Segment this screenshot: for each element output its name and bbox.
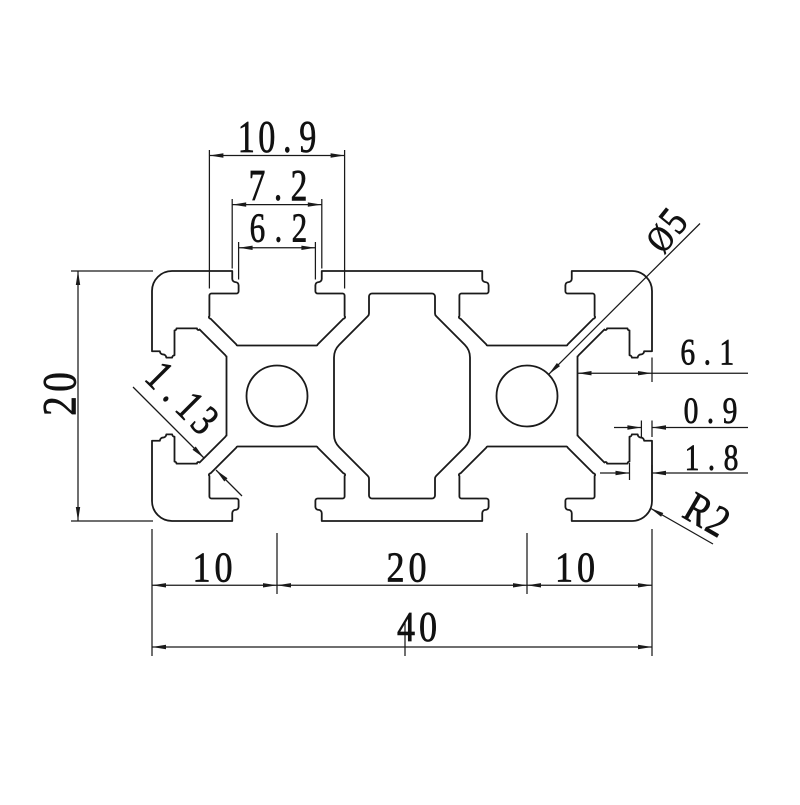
svg-text:7.2: 7.2 [249, 162, 308, 210]
svg-text:0.9: 0.9 [684, 391, 738, 432]
svg-text:6.2: 6.2 [250, 205, 308, 250]
svg-text:1.8: 1.8 [685, 438, 739, 479]
svg-text:6.1: 6.1 [680, 332, 734, 373]
